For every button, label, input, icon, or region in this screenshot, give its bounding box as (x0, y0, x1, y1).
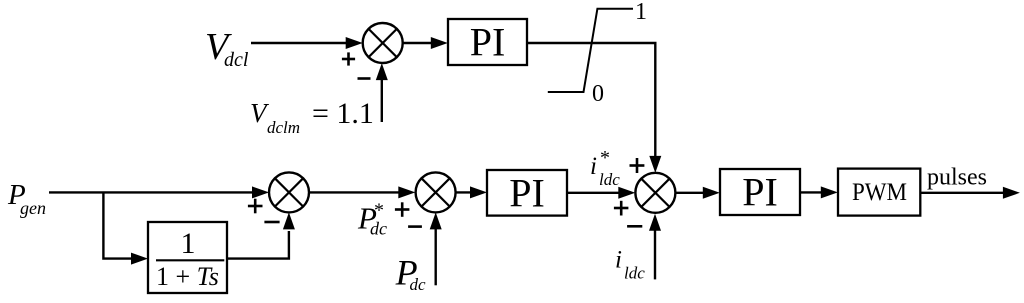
svg-text:ldc: ldc (624, 264, 645, 283)
plus sign at S3 left input (395, 202, 410, 217)
input label Pgen (7, 179, 46, 218)
plus sign at S1 left input (342, 52, 355, 65)
svg-text:dc: dc (410, 275, 427, 294)
input label Vdcl (205, 26, 249, 71)
svg-text:dcl: dcl (224, 49, 249, 71)
wire S2 to summer S3 (309, 186, 415, 198)
block U5 PWM (838, 169, 920, 216)
summing junction S2 (269, 172, 309, 212)
value label Vdclm = 1.1 (250, 97, 374, 137)
block U4 PI (720, 169, 800, 215)
svg-text:PI: PI (509, 170, 545, 215)
node label Pdc* reference (357, 200, 387, 239)
svg-text:0: 0 (592, 81, 604, 107)
svg-text:ldc: ldc (599, 170, 620, 189)
plus sign at S4 left input (614, 201, 629, 216)
wire U4 to PWM block (800, 186, 838, 198)
block U1 PI (448, 19, 527, 65)
minus sign at S1 bottom input (358, 77, 371, 80)
wire S4 to PI block U4 (675, 187, 719, 199)
input label Pdc measured power (395, 253, 426, 294)
wire Pgen to summer S2 (49, 186, 269, 198)
svg-text:= 1.1: = 1.1 (312, 97, 374, 130)
wire Vdclm to S1 (376, 63, 388, 122)
svg-text:pulses: pulses (927, 165, 987, 191)
minus sign at S2 bottom input (264, 221, 279, 224)
svg-text:gen: gen (20, 198, 46, 218)
plus sign at S4 top input (630, 158, 645, 173)
wire U3 to summer S4 (567, 187, 635, 199)
input label ildc measured current (615, 246, 645, 282)
svg-text:i: i (615, 246, 622, 273)
summing junction S4 (635, 173, 675, 213)
block U2 lag filter 1/(1+Ts) (148, 222, 227, 293)
svg-text:*: * (600, 147, 610, 169)
wire S3 to PI block U3 (456, 186, 487, 198)
block U3 PI (487, 170, 567, 216)
output wire pulses (920, 187, 1020, 199)
svg-text:dc: dc (370, 219, 387, 239)
summing junction S3 (416, 172, 456, 212)
label 1 upper limit (635, 0, 647, 25)
label 0 lower limit (592, 81, 604, 107)
svg-text:dclm: dclm (267, 118, 300, 137)
wire U1 output to saturation node and down to summer S4 (527, 43, 661, 173)
summing junction S1 (363, 23, 403, 63)
output label pulses (927, 165, 987, 191)
wire S1 to PI block U1 (403, 37, 448, 49)
svg-text:1 + Ts: 1 + Ts (156, 262, 219, 291)
svg-text:PWM: PWM (852, 179, 907, 206)
plus sign at S2 left input (248, 199, 263, 214)
svg-text:PI: PI (742, 170, 778, 215)
minus sign at S4 bottom input (627, 225, 642, 228)
minus sign at S3 bottom input (408, 225, 422, 228)
svg-text:1: 1 (635, 0, 647, 25)
node label ildc* reference current (590, 147, 620, 189)
wire ildc to S4 (649, 214, 661, 280)
svg-text:1: 1 (181, 227, 196, 260)
saturation limiter symbol (548, 9, 633, 92)
wire lag block output up to summer S2 (227, 212, 295, 258)
svg-text:i: i (590, 153, 597, 180)
wire Vdcl to summer S1 (251, 37, 363, 49)
svg-text:PI: PI (470, 20, 506, 65)
wire Pdc to S3 (430, 212, 442, 285)
wire branch down to lag block (103, 192, 148, 264)
